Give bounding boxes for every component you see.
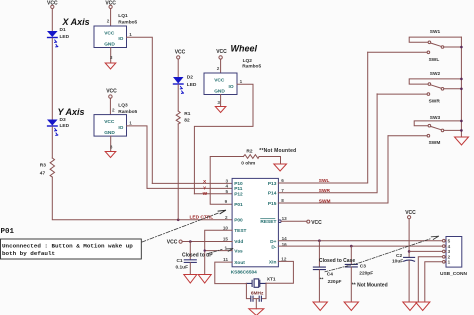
svg-text:SW2: SW2: [430, 71, 441, 77]
svg-text:220pF: 220pF: [328, 279, 342, 285]
opto sensor LQ3: [94, 103, 138, 137]
svg-text:SW1: SW1: [430, 29, 441, 35]
svg-text:R1: R1: [184, 111, 190, 117]
svg-text:C2: C2: [396, 253, 402, 259]
note Closed to Case with leader to USB shield: [319, 236, 439, 272]
svg-text:Vss: Vss: [234, 248, 243, 254]
svg-text:VCC: VCC: [104, 119, 115, 125]
svg-text:GND: GND: [214, 88, 225, 94]
svg-text:1: 1: [129, 121, 132, 126]
svg-text:LQ2: LQ2: [243, 58, 253, 64]
wire Xout pin 11 to crystal: [215, 262, 247, 284]
resistor R2 (0 ohm): [241, 149, 259, 167]
connector J1 USB_CONN: [440, 237, 467, 278]
svg-text:GND: GND: [104, 130, 115, 136]
svg-text:R2: R2: [246, 149, 252, 155]
svg-text:both by default: both by default: [2, 250, 55, 257]
svg-text:W: W: [203, 191, 208, 197]
svg-text:P01: P01: [234, 202, 243, 208]
svg-text:VCC: VCC: [216, 49, 227, 55]
svg-text:LQ3: LQ3: [118, 103, 128, 109]
svg-text:3: 3: [110, 55, 113, 60]
svg-text:C4: C4: [327, 271, 333, 277]
wire D2 to R1: [177, 85, 179, 112]
power VCC (LQ1): [105, 1, 116, 9]
wire P01 to R2: [210, 157, 243, 205]
svg-text:**Not Mounted: **Not Mounted: [259, 148, 296, 154]
wire VCC to LQ1, pin 2: [107, 9, 111, 27]
wire SWL to bus: [368, 51, 427, 53]
switch SW3: [414, 115, 461, 146]
node bus junctions: [460, 46, 463, 132]
svg-text:47: 47: [40, 170, 46, 176]
ground (R2): [274, 164, 287, 171]
wire LQ3 IO pin 1 to Y vertical: [127, 121, 148, 189]
ground (switch bus): [455, 137, 469, 145]
resistor R3: [40, 158, 55, 177]
svg-text:Wheel: Wheel: [231, 44, 258, 54]
svg-text:Rambo5: Rambo5: [118, 109, 137, 115]
wire VCC to LQ3, pin 2: [110, 98, 115, 114]
svg-text:1: 1: [240, 79, 243, 84]
svg-text:D+: D+: [270, 239, 276, 245]
ground (LQ2): [215, 107, 226, 113]
power VCC port (Vdd): [167, 240, 182, 246]
svg-text:P11: P11: [234, 186, 243, 192]
ground (LQ1): [105, 63, 116, 69]
svg-text:Closed to Case: Closed to Case: [319, 258, 355, 264]
svg-text:6: 6: [281, 178, 284, 183]
wire SWM to bus: [388, 135, 427, 137]
switch SW2: [409, 71, 461, 105]
svg-text:1: 1: [129, 32, 132, 37]
svg-text:12: 12: [281, 257, 287, 262]
LED D1: [47, 27, 70, 47]
svg-text:**: **: [320, 276, 324, 282]
svg-text:D2: D2: [187, 75, 193, 81]
power VCC (D2 chain): [175, 49, 186, 59]
svg-text:10uF: 10uF: [392, 258, 403, 264]
node C1 junction: [189, 240, 192, 243]
wire P14 net SWR: [278, 94, 377, 193]
svg-text:VCC: VCC: [175, 49, 186, 55]
svg-text:P15: P15: [268, 201, 277, 207]
svg-text:P01: P01: [1, 228, 15, 236]
svg-text:P00: P00: [234, 218, 243, 224]
capacitor C1 0.1uF: [176, 242, 197, 275]
crystal XT1 6MHz: [246, 277, 276, 297]
wire LQ3 GND pin 3: [110, 136, 113, 151]
svg-text:VCC: VCC: [214, 78, 225, 84]
capacitor (xtal right): [259, 296, 261, 301]
svg-text:15: 15: [223, 236, 229, 241]
svg-text:VCC: VCC: [405, 210, 416, 216]
wire VCC down to USB pin 3 and C2: [408, 219, 410, 257]
svg-text:RESET: RESET: [260, 219, 276, 225]
svg-text:P14: P14: [268, 191, 277, 197]
ground (C2/pin2): [403, 302, 417, 311]
wire net X into P10: [152, 182, 232, 184]
ground (pin1): [416, 302, 430, 311]
wire VCC to Vdd pin 15: [182, 241, 232, 243]
svg-text:LED: LED: [60, 123, 70, 129]
svg-text:1: 1: [224, 246, 227, 251]
svg-text:2: 2: [107, 19, 110, 24]
wire R2 to ground: [259, 157, 280, 165]
svg-text:3: 3: [217, 100, 220, 105]
svg-text:Rambo5: Rambo5: [242, 63, 261, 69]
wire switch ground bus: [460, 37, 462, 137]
svg-text:82: 82: [184, 118, 190, 124]
svg-text:C1: C1: [176, 258, 182, 264]
svg-text:SWL: SWL: [429, 57, 440, 63]
leader from note box to P00/P01 pins: [142, 210, 226, 242]
LED D2: [173, 75, 197, 94]
power VCC (LQ2): [216, 49, 227, 59]
svg-text:0.1uF: 0.1uF: [176, 265, 189, 271]
svg-text:SWM: SWM: [429, 140, 441, 146]
ground (LQ3): [105, 152, 116, 158]
capacitor C3 220pF: [345, 246, 373, 302]
svg-text:0 ohm: 0 ohm: [241, 160, 255, 166]
power VCC port (USB VBUS): [405, 210, 416, 219]
svg-text:2: 2: [217, 66, 220, 71]
svg-text:D3: D3: [60, 117, 66, 123]
wire P13 net SWL: [278, 52, 367, 183]
svg-text:KS86C6504: KS86C6504: [231, 270, 257, 276]
svg-text:LQ1: LQ1: [118, 13, 128, 19]
svg-text:VCC: VCC: [104, 31, 115, 37]
ground (C3): [344, 302, 358, 311]
svg-text:5: 5: [448, 239, 451, 244]
svg-text:SWR: SWR: [429, 99, 441, 105]
svg-text:GND: GND: [104, 41, 115, 47]
svg-text:IO: IO: [229, 84, 234, 90]
wire P15 net SWM: [278, 136, 388, 203]
svg-text:X Axis: X Axis: [62, 17, 90, 27]
svg-text:6MHz: 6MHz: [251, 290, 264, 296]
wire crystal left leg down: [246, 283, 250, 298]
wire TEST pin 10 to ground run: [205, 230, 232, 274]
node TEST/Vss junction: [204, 249, 206, 251]
svg-text:Y Axis: Y Axis: [58, 107, 85, 117]
power VCC port (RESET pullup): [307, 220, 322, 226]
svg-text:13: 13: [282, 216, 288, 221]
svg-text:P13: P13: [268, 181, 277, 187]
svg-text:P12: P12: [234, 192, 243, 198]
capacitor (xtal left): [251, 296, 253, 301]
svg-text:220pF: 220pF: [359, 271, 373, 277]
node junction D2 chain / LED_CTRL: [177, 219, 180, 222]
svg-text:2: 2: [112, 107, 115, 112]
ground (crystal): [249, 309, 264, 315]
node VBUS junction: [408, 250, 411, 253]
svg-text:TEST: TEST: [234, 228, 246, 234]
node C4 on D+: [318, 239, 321, 242]
svg-text:XT1: XT1: [267, 277, 276, 283]
svg-text:Xout: Xout: [234, 260, 245, 266]
microcontroller U1 KS86C6504: [231, 178, 279, 275]
wire D- rail to USB pin 4: [278, 245, 442, 247]
switch SW1: [409, 29, 461, 63]
wire R3 down to LED_CTRL run: [52, 177, 232, 220]
wire LQ1 IO pin 1 to X vertical: [127, 32, 153, 183]
svg-text:IO: IO: [118, 36, 123, 42]
LED D3: [47, 117, 70, 136]
svg-text:SW3: SW3: [430, 115, 441, 121]
wire D3 to R3: [51, 127, 53, 158]
wire net Y into P11: [147, 187, 232, 189]
svg-text:5: 5: [225, 189, 228, 194]
wire SWR to bus: [377, 93, 427, 95]
svg-text:Xin: Xin: [269, 259, 277, 265]
wire caps center to ground: [253, 299, 259, 309]
svg-text:Vdd: Vdd: [234, 239, 243, 245]
wire LQ2 IO pin 1 routed to W vertical: [194, 79, 253, 194]
svg-text:SWL: SWL: [319, 178, 330, 184]
wire USB pin 1 to ground: [425, 262, 443, 302]
svg-text:11: 11: [223, 257, 228, 262]
ground (C4): [313, 302, 327, 311]
wire R1 down to LED_CTRL junction: [177, 124, 179, 220]
svg-text:2: 2: [225, 215, 228, 220]
svg-text:** Not Mounted: ** Not Mounted: [352, 283, 388, 289]
svg-text:D-: D-: [271, 244, 276, 250]
RESET pin 13 bubble and wire: [279, 220, 307, 223]
svg-text:3: 3: [448, 249, 451, 254]
svg-text:VCC: VCC: [311, 220, 322, 226]
svg-text:SWM: SWM: [319, 199, 331, 205]
svg-text:Unconnected : Button & Motion: Unconnected : Button & Motion wake up: [2, 243, 133, 250]
svg-text:10: 10: [223, 225, 229, 230]
wire D+ rail to USB pin 5: [278, 240, 442, 242]
wire net W into P12: [194, 193, 232, 195]
svg-text:9: 9: [225, 199, 228, 204]
wire LQ1 GND pin 3: [110, 48, 113, 64]
svg-text:VCC: VCC: [106, 89, 117, 95]
wire D1 to D3: [51, 38, 53, 119]
wire VCC to LQ2, pin 2: [217, 59, 221, 73]
power VCC (LQ3): [106, 89, 117, 99]
opto sensor LQ2: [204, 58, 261, 94]
wire VCC to D1: [51, 9, 53, 32]
svg-text:SWR: SWR: [319, 188, 331, 194]
ground (Vss/TEST): [198, 275, 211, 284]
svg-text:8: 8: [281, 198, 284, 203]
svg-text:USB_CONN: USB_CONN: [440, 271, 467, 277]
pin number labels main IC left: [223, 179, 229, 263]
svg-text:Rambo5: Rambo5: [118, 19, 137, 25]
wire VBUS to USB pin 3: [409, 250, 442, 252]
svg-text:D1: D1: [60, 27, 66, 33]
svg-text:4: 4: [448, 244, 451, 249]
ground (C1): [184, 275, 197, 284]
wire VCC to D2: [177, 59, 179, 77]
wire USB pin 2 to ground: [418, 257, 442, 302]
svg-text:IO: IO: [118, 125, 123, 131]
node C3 on D-: [350, 245, 353, 248]
svg-text:LED: LED: [187, 82, 197, 88]
annotation box: unconnected note: [1, 239, 142, 259]
opto sensor LQ1: [94, 13, 138, 48]
note Closed to uP with leader to Vss: [182, 249, 233, 259]
svg-text:3: 3: [110, 144, 113, 149]
power VCC (D1 chain): [47, 1, 58, 9]
capacitor C4 220pF: [313, 241, 341, 302]
svg-text:1: 1: [448, 260, 451, 265]
wire LQ2 GND pin 3: [217, 95, 220, 107]
svg-text:VCC: VCC: [167, 240, 178, 246]
wire Xin pin 12 to crystal: [266, 261, 293, 283]
pin number labels main IC right: [281, 178, 287, 261]
svg-text:C3: C3: [360, 263, 366, 269]
wire crystal right leg down: [262, 283, 266, 298]
svg-text:LED: LED: [60, 34, 70, 40]
resistor R1: [176, 111, 191, 124]
wire Vss pin 1: [205, 250, 232, 252]
capacitor C2 10uF: [392, 253, 415, 302]
svg-text:7: 7: [281, 188, 284, 193]
svg-text:R3: R3: [40, 163, 46, 169]
